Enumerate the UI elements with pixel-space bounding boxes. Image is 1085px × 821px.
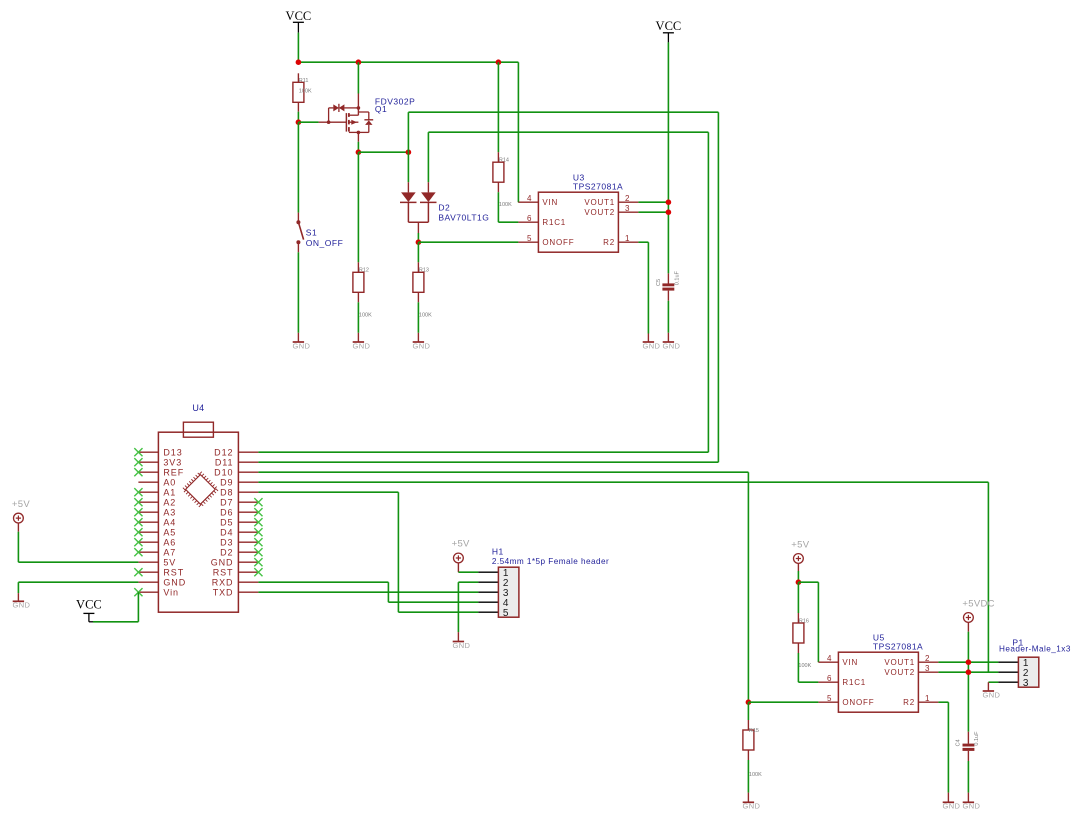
svg-text:D5: D5 xyxy=(220,518,233,528)
svg-text:D8: D8 xyxy=(220,488,233,498)
svg-text:+5V: +5V xyxy=(791,540,809,551)
svg-text:GND: GND xyxy=(293,341,311,350)
wire VCC top rail y=62 xyxy=(298,61,518,63)
wire gate node down to S1 xyxy=(297,122,299,212)
svg-text:D13: D13 xyxy=(163,448,182,458)
wire net D12 from D2 anode2 xyxy=(428,132,708,452)
svg-text:VOUT2: VOUT2 xyxy=(884,668,915,677)
wire R14 to U3 R1C1 xyxy=(498,192,518,222)
svg-text:TXD: TXD xyxy=(213,588,234,598)
svg-text:Vin: Vin xyxy=(163,588,179,598)
svg-text:R2: R2 xyxy=(603,238,615,247)
svg-text:+5VDC: +5VDC xyxy=(962,599,994,610)
wire Q1 drain to drain node xyxy=(357,142,359,152)
node junction VOUT1/VCC xyxy=(666,199,672,205)
wire U5 R2 to ground xyxy=(938,702,948,792)
svg-text:Header-Male_1x3: Header-Male_1x3 xyxy=(999,645,1071,654)
svg-text:GND: GND xyxy=(453,641,471,650)
resistor R16 100K xyxy=(793,613,812,669)
node junction VOUT2/+5VDC xyxy=(966,669,972,675)
wire ONOFF node to U3 pin 5 xyxy=(418,241,518,243)
svg-text:100K: 100K xyxy=(749,772,762,778)
wire R11 to gate node xyxy=(297,112,299,123)
svg-text:A1: A1 xyxy=(163,488,176,498)
svg-text:3: 3 xyxy=(625,204,630,213)
svg-text:VCC: VCC xyxy=(286,9,312,23)
wire S1 to ground xyxy=(297,252,299,332)
capacitor C4 0.1uF xyxy=(956,731,981,761)
svg-text:R2: R2 xyxy=(903,698,915,707)
power symbol +5V (at U5) xyxy=(791,540,809,571)
resistor R11 100K xyxy=(293,73,312,111)
wire VCC to U3 VIN xyxy=(517,62,520,202)
svg-text:H1: H1 xyxy=(492,547,504,557)
svg-text:VOUT1: VOUT1 xyxy=(884,658,915,667)
node junction ONOFF/R13 xyxy=(416,239,422,245)
svg-text:RST: RST xyxy=(213,568,234,578)
wire net D11 riser and top run xyxy=(408,112,718,462)
svg-text:GND: GND xyxy=(163,578,186,588)
svg-text:R11: R11 xyxy=(299,78,309,84)
svg-text:6: 6 xyxy=(527,214,532,223)
svg-text:4: 4 xyxy=(827,654,832,663)
svg-text:VCC: VCC xyxy=(656,19,682,33)
wire U3 VOUT2 to VCC column xyxy=(638,211,668,213)
svg-text:TPS27081A: TPS27081A xyxy=(873,642,923,652)
wire net D10 to U4 xyxy=(258,472,748,702)
svg-text:D2: D2 xyxy=(438,203,450,213)
wire VCC to Q1 source xyxy=(357,62,359,93)
node junction VCC/Q1 source xyxy=(356,59,362,65)
svg-text:VIN: VIN xyxy=(842,658,858,667)
resistor R15 100K xyxy=(743,720,762,778)
svg-text:D12: D12 xyxy=(214,448,233,458)
power symbol VCC (second, top right) xyxy=(656,19,682,273)
wire R16 to U5 R1C1 xyxy=(798,653,818,682)
ground GND under R13 xyxy=(413,333,431,351)
svg-text:D9: D9 xyxy=(220,478,233,488)
svg-text:A3: A3 xyxy=(163,508,176,518)
wire ground to U4 GND pin xyxy=(18,582,138,593)
svg-text:D7: D7 xyxy=(220,498,233,508)
svg-text:2: 2 xyxy=(625,194,630,203)
svg-text:3: 3 xyxy=(1023,678,1029,689)
ground GND under R12 xyxy=(353,333,371,351)
wire R13 to ground xyxy=(417,302,419,333)
svg-text:+5V: +5V xyxy=(452,539,470,550)
svg-text:6: 6 xyxy=(827,674,832,683)
wire H1 pin2 to ground xyxy=(458,582,478,632)
svg-text:4: 4 xyxy=(527,194,532,203)
no-connect marks U4 left pins xyxy=(134,448,142,596)
wire net D12 to U4 xyxy=(258,451,708,453)
svg-text:A2: A2 xyxy=(163,498,176,508)
wire ONOFF node down to R13 xyxy=(417,242,419,262)
node junction VCC/R14 xyxy=(496,59,502,65)
svg-text:VOUT1: VOUT1 xyxy=(584,198,615,207)
ground GND under H1 xyxy=(453,632,471,650)
svg-text:BAV70LT1G: BAV70LT1G xyxy=(438,212,489,222)
wire +5V down to node xyxy=(797,571,799,582)
svg-text:D3: D3 xyxy=(220,538,233,548)
svg-text:REF: REF xyxy=(163,468,184,478)
wire C5 to ground xyxy=(667,301,669,333)
node junction drain/D2 anode1/D11 net xyxy=(406,149,412,155)
wire drain node horizontal xyxy=(358,151,408,153)
svg-text:D2: D2 xyxy=(220,548,233,558)
svg-text:5: 5 xyxy=(827,694,832,703)
wire net D11 to U4 xyxy=(258,461,718,463)
wire C4 to ground xyxy=(967,761,969,793)
wire node down to R16 xyxy=(797,582,799,613)
ground GND under U5 R2 xyxy=(943,793,961,811)
svg-text:100K: 100K xyxy=(499,202,512,208)
svg-text:D10: D10 xyxy=(214,468,233,478)
wire +5V to H1 pin1 xyxy=(458,571,478,573)
svg-text:R14: R14 xyxy=(499,158,509,164)
svg-text:S1: S1 xyxy=(306,227,317,237)
power symbol VCC (third, under U4) xyxy=(76,598,102,622)
svg-text:VIN: VIN xyxy=(542,198,558,207)
diode D2 BAV70LT1G dual xyxy=(400,182,489,233)
ground GND left of U4 xyxy=(13,593,31,610)
svg-text:A5: A5 xyxy=(163,528,176,538)
node junction D10/ONOFF/R15 xyxy=(746,699,752,705)
ground GND under C5 xyxy=(663,333,681,351)
svg-text:5V: 5V xyxy=(163,558,176,568)
node junction gate/R11/S1 xyxy=(296,119,302,125)
transistor Q1 FDV302P p-MOSFET xyxy=(319,94,416,142)
IC U4 microcontroller module body xyxy=(138,403,258,612)
svg-text:2.54mm 1*5p Female header: 2.54mm 1*5p Female header xyxy=(492,557,609,566)
node junction +5V/R16/U5 VIN xyxy=(796,579,802,585)
svg-text:VCC: VCC xyxy=(76,598,102,612)
svg-text:3V3: 3V3 xyxy=(163,458,182,468)
svg-text:U4: U4 xyxy=(192,403,204,413)
svg-text:100K: 100K xyxy=(359,313,372,319)
ground GND under R15 xyxy=(743,793,761,811)
switch S1 ON_OFF xyxy=(296,213,343,253)
power symbol +5V (left) xyxy=(12,499,30,532)
svg-text:GND: GND xyxy=(353,341,371,350)
wire net D8 to header H1 pin5 xyxy=(258,492,478,612)
wire VCC to U4 Vin pin xyxy=(93,592,138,622)
capacitor C5 0.1uF xyxy=(656,270,681,300)
no-connect marks U4 right pins xyxy=(254,498,262,576)
svg-text:1: 1 xyxy=(925,694,930,703)
node junction VCC/R11 xyxy=(296,59,302,65)
node junction drain/R12 xyxy=(356,149,362,155)
power symbol VCC (top left) xyxy=(286,9,312,62)
wire node to U5 ONOFF xyxy=(748,701,818,703)
wire D2 anode1 column xyxy=(407,152,409,182)
svg-text:R15: R15 xyxy=(749,728,759,734)
wire U3 VOUT1 to VCC column xyxy=(638,201,668,203)
node junction VOUT1/+5VDC xyxy=(966,659,972,665)
wire node to U5 VIN xyxy=(798,582,818,662)
op-amp U3 TPS27081A load switch xyxy=(518,173,638,253)
power symbol +5VDC xyxy=(962,599,994,632)
svg-text:0.1uF: 0.1uF xyxy=(675,270,681,285)
svg-text:ONOFF: ONOFF xyxy=(542,238,574,247)
wire U3 R2 to ground xyxy=(638,242,648,333)
wire drain node down to R12 xyxy=(357,152,359,262)
svg-text:D4: D4 xyxy=(220,528,233,538)
svg-text:GND: GND xyxy=(211,558,234,568)
svg-text:A7: A7 xyxy=(163,548,176,558)
resistor R14 100K xyxy=(493,152,512,208)
wire D2 cathode to ONOFF node xyxy=(417,233,419,242)
wire U5 VOUT1 to P1 pin1 xyxy=(938,661,998,663)
ground GND under S1 xyxy=(293,333,311,351)
wire net RXD to header H1 pin4 xyxy=(258,582,478,602)
svg-text:C4: C4 xyxy=(956,739,962,746)
svg-text:TPS27081A: TPS27081A xyxy=(573,182,623,192)
svg-text:GND: GND xyxy=(943,801,961,810)
svg-text:2: 2 xyxy=(925,654,930,663)
svg-text:C5: C5 xyxy=(656,279,662,286)
svg-text:GND: GND xyxy=(983,691,1001,700)
svg-text:RXD: RXD xyxy=(212,578,234,588)
wire gate node to Q1 gate xyxy=(298,121,318,123)
svg-text:5: 5 xyxy=(503,608,509,619)
wire R15 to ground xyxy=(747,760,749,793)
svg-text:R16: R16 xyxy=(799,618,809,624)
svg-text:VOUT2: VOUT2 xyxy=(584,208,615,217)
svg-text:0.1uF: 0.1uF xyxy=(974,731,980,746)
ground GND at P1 pin3 xyxy=(983,682,1001,699)
svg-text:GND: GND xyxy=(413,341,431,350)
svg-text:GND: GND xyxy=(643,341,661,350)
svg-text:D11: D11 xyxy=(215,458,234,468)
wire R12 to ground xyxy=(357,302,359,333)
wire VCC to R14 xyxy=(497,62,499,152)
svg-text:GND: GND xyxy=(663,341,681,350)
svg-text:3: 3 xyxy=(925,664,930,673)
svg-text:5: 5 xyxy=(527,234,532,243)
ground GND under U3 R2 xyxy=(643,334,661,351)
svg-text:R13: R13 xyxy=(419,268,429,274)
svg-text:1: 1 xyxy=(625,234,630,243)
wire node down to R15 xyxy=(747,702,749,720)
svg-text:RST: RST xyxy=(163,568,184,578)
power symbol +5V (at H1) xyxy=(452,539,470,573)
ground GND under C4 xyxy=(963,793,981,811)
svg-text:D6: D6 xyxy=(220,508,233,518)
wire +5V to U4 5V pin xyxy=(18,532,138,563)
connector P1 Header-Male_1x3 xyxy=(998,638,1070,689)
svg-text:100K: 100K xyxy=(798,663,811,669)
svg-text:ONOFF: ONOFF xyxy=(842,698,874,707)
node junction VOUT2/VCC xyxy=(666,209,672,215)
svg-text:Q1: Q1 xyxy=(375,104,387,114)
svg-text:100K: 100K xyxy=(419,313,432,319)
svg-text:GND: GND xyxy=(13,601,31,610)
svg-text:GND: GND xyxy=(963,801,981,810)
svg-text:100K: 100K xyxy=(299,89,312,95)
wire U5 VOUT2 row xyxy=(938,671,998,673)
svg-text:A0: A0 xyxy=(163,478,176,488)
wire P1 pin3 to ground xyxy=(988,681,998,683)
svg-text:R12: R12 xyxy=(359,268,369,274)
connector H1 2.54mm 1*5p female header xyxy=(478,547,609,619)
wire net D9 to U4 xyxy=(258,482,988,672)
wire +5VDC to VOUT column xyxy=(967,632,969,732)
svg-text:R1C1: R1C1 xyxy=(842,678,866,687)
wire net TXD to header H1 pin3 xyxy=(258,591,478,593)
svg-text:+5V: +5V xyxy=(12,499,30,510)
svg-text:A4: A4 xyxy=(163,518,176,528)
svg-text:GND: GND xyxy=(743,801,761,810)
svg-text:A6: A6 xyxy=(163,538,176,548)
resistor R13 100K xyxy=(413,262,432,318)
resistor R12 100K xyxy=(353,262,372,318)
svg-text:R1C1: R1C1 xyxy=(542,218,566,227)
op-amp U5 TPS27081A load switch xyxy=(818,633,938,713)
svg-text:ON_OFF: ON_OFF xyxy=(306,238,343,248)
